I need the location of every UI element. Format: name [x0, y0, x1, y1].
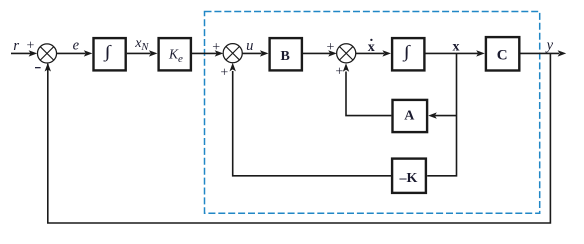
wire S3 to integrator I2	[356, 52, 384, 54]
wire B to summing junction S3	[303, 52, 330, 54]
arrow into S2	[215, 50, 224, 56]
wire input r	[11, 52, 31, 54]
svg-text:B: B	[281, 49, 290, 64]
output arrowhead	[558, 50, 567, 56]
wire S1 to integrator I1	[56, 52, 85, 54]
wire C to output y	[520, 52, 559, 54]
summing junction S3	[337, 44, 356, 63]
svg-text:r: r	[13, 38, 19, 54]
svg-text:+: +	[220, 65, 228, 80]
arrow into A	[428, 112, 437, 118]
summing junction S1	[37, 44, 56, 63]
integrator block I2	[392, 38, 424, 70]
wire outer feedback loop	[48, 53, 551, 223]
wire branch to A	[435, 115, 457, 117]
integrator block I1	[94, 38, 126, 70]
gain block Ke	[159, 38, 191, 70]
dashed plant boundary box	[205, 12, 540, 214]
svg-text:+: +	[212, 40, 220, 55]
wire I2 to C (state x line)	[426, 52, 479, 54]
block C	[486, 37, 519, 70]
summing junction S2	[223, 44, 242, 63]
svg-text:+: +	[27, 38, 35, 53]
svg-text:e: e	[73, 38, 80, 54]
arrow into S2 from below	[230, 63, 236, 72]
svg-text:–K: –K	[399, 171, 418, 186]
wire Ke to summing junction S2	[192, 52, 217, 54]
arrow into S1 from below	[45, 63, 51, 72]
svg-text:C: C	[497, 48, 508, 64]
wire S2 to B	[242, 52, 261, 54]
arrow into I1	[84, 50, 93, 56]
arrow into S3	[328, 50, 337, 56]
arrow into Ke	[149, 50, 158, 56]
svg-text:y: y	[545, 37, 554, 53]
wire -K output to S2	[233, 71, 391, 176]
arrow into B	[260, 50, 269, 56]
block B	[270, 38, 302, 70]
wire A output to S3	[346, 72, 391, 116]
svg-text:x: x	[453, 40, 460, 55]
svg-text:x: x	[368, 40, 375, 55]
svg-text:u: u	[246, 38, 253, 54]
svg-text:+: +	[326, 40, 334, 55]
wire state tap node vertical	[427, 53, 456, 175]
block -K	[392, 159, 426, 193]
label - (feedback sign at S1)	[35, 67, 41, 68]
arrow into S3 from below	[343, 63, 349, 72]
wire I1 to Ke	[127, 52, 151, 54]
block A	[393, 100, 428, 132]
arrow into summing junction S1	[29, 50, 38, 56]
arrow into C	[476, 50, 485, 56]
svg-text:+: +	[335, 65, 343, 80]
svg-text:A: A	[404, 108, 415, 123]
arrow into I2	[382, 50, 391, 56]
